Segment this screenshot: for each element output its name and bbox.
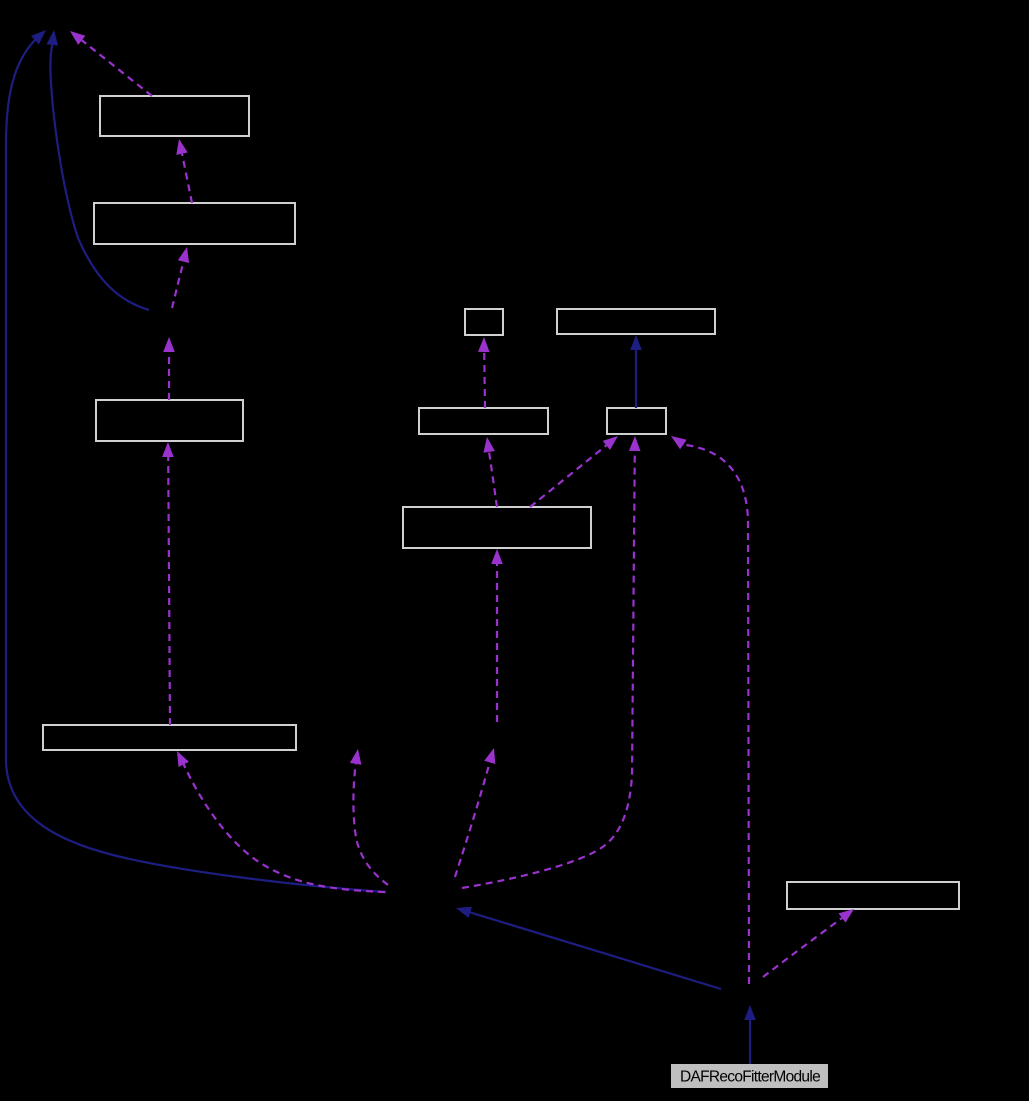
svg-text:DAFRecoFitterModule: DAFRecoFitterModule [680,1069,820,1086]
